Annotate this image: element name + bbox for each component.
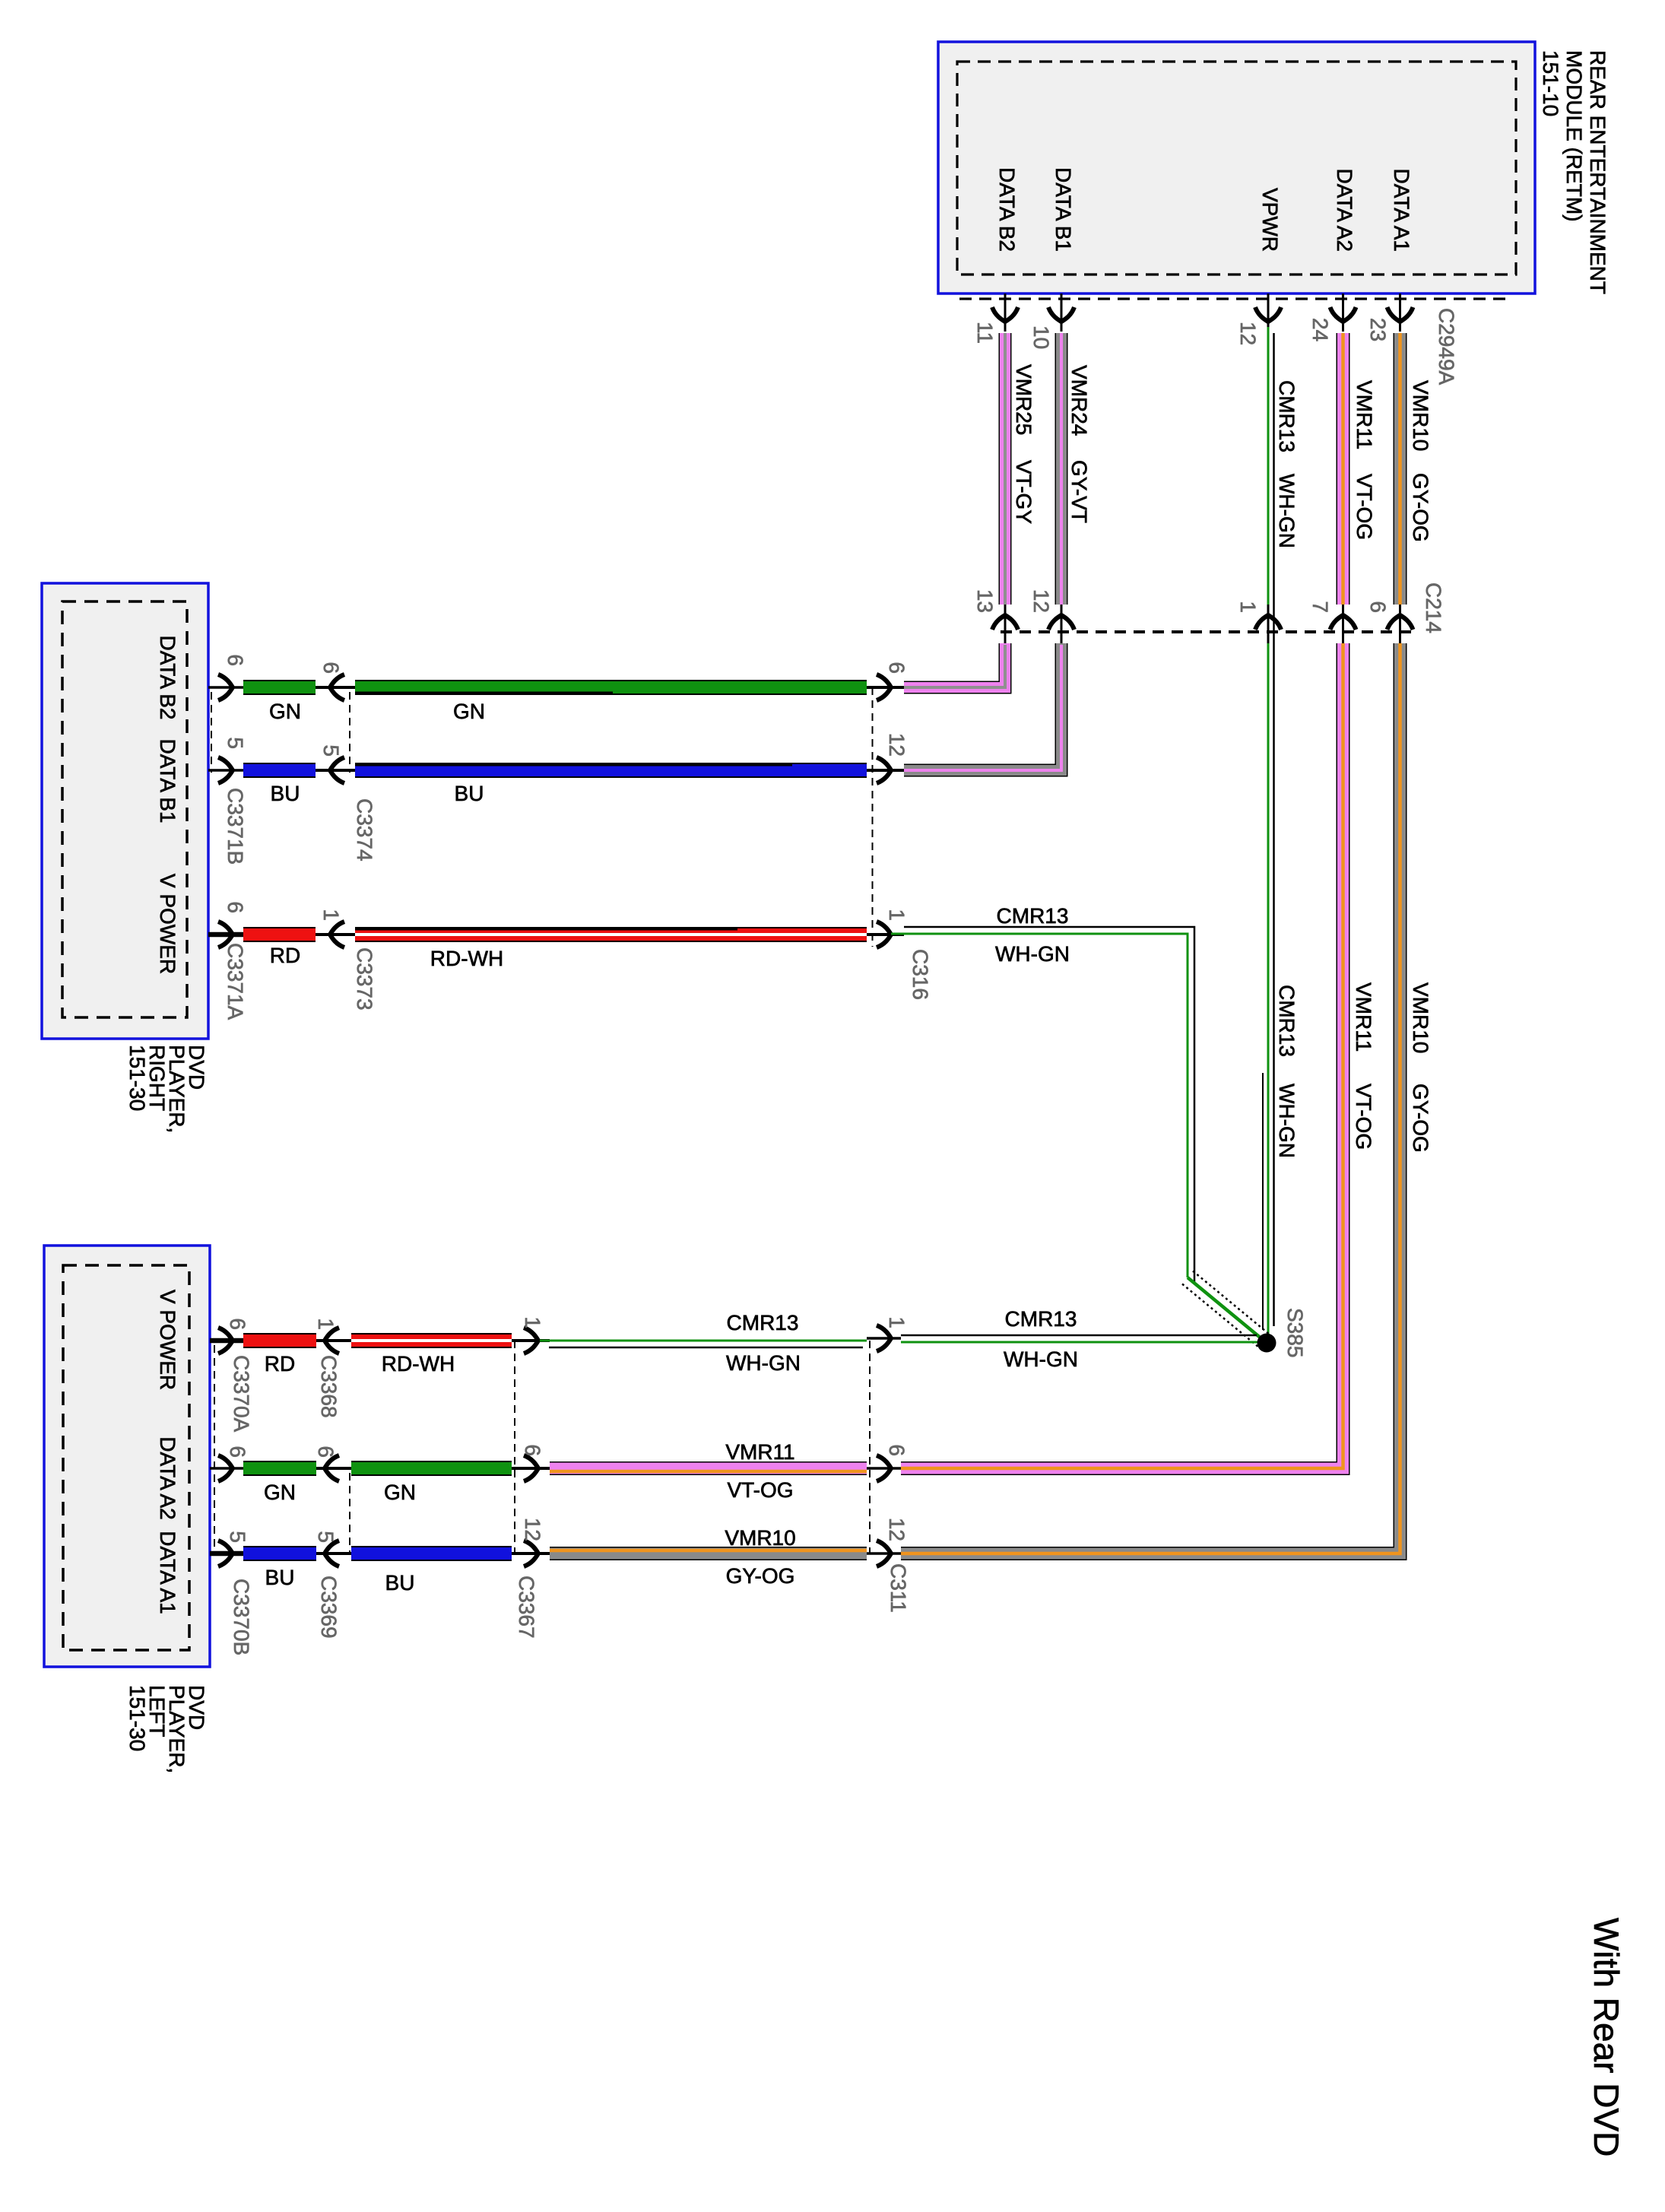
svg-text:DATA B2: DATA B2 bbox=[156, 635, 179, 719]
label RD short bbox=[270, 944, 300, 967]
label VMR10 GY-OG (lower vertical) bbox=[1409, 982, 1432, 1153]
pin label DATA B1 bbox=[1051, 167, 1075, 252]
svg-text:V POWER: V POWER bbox=[156, 1290, 179, 1390]
wire RD short (C3370A to C3368) bbox=[243, 1333, 316, 1348]
svg-text:6: 6 bbox=[314, 1446, 338, 1458]
connector C214 label bbox=[1422, 582, 1445, 633]
pin number 5 (C3374/C3373) bbox=[319, 744, 343, 757]
svg-text:C316: C316 bbox=[909, 949, 932, 1000]
svg-text:GY-OG: GY-OG bbox=[1409, 1084, 1432, 1153]
svg-text:1: 1 bbox=[885, 1316, 909, 1328]
svg-text:6: 6 bbox=[224, 901, 247, 913]
svg-text:6: 6 bbox=[1366, 601, 1390, 613]
svg-text:1: 1 bbox=[521, 1316, 544, 1328]
in-line arrow into C3368/C3369 row y=1763 bbox=[316, 1328, 351, 1354]
label RD-WH long bbox=[430, 947, 503, 970]
svg-text:RD-WH: RD-WH bbox=[430, 947, 503, 970]
svg-text:WH-GN: WH-GN bbox=[726, 1351, 801, 1375]
svg-text:GN: GN bbox=[264, 1480, 296, 1504]
connector C3370B label bbox=[230, 1579, 253, 1655]
svg-text:C3371A: C3371A bbox=[224, 943, 247, 1020]
svg-text:VMR11: VMR11 bbox=[725, 1440, 794, 1464]
label RD-WH left bbox=[382, 1352, 455, 1376]
svg-text:6: 6 bbox=[885, 662, 909, 674]
pin label DATA A2 (left DVD) bbox=[156, 1436, 179, 1519]
svg-text:151-30: 151-30 bbox=[125, 1045, 149, 1111]
wire GN long (C3374 to C316 pin 6) bbox=[355, 687, 867, 693]
connector C214 dashed line bbox=[1001, 630, 1413, 633]
pin number 12 (C2949A) bbox=[1236, 322, 1260, 345]
svg-text:GN: GN bbox=[453, 700, 485, 723]
connector C3374 dashed bbox=[349, 692, 350, 773]
svg-text:WH-GN: WH-GN bbox=[1275, 474, 1299, 548]
label BU short bbox=[271, 782, 300, 805]
svg-text:C3369: C3369 bbox=[317, 1576, 341, 1639]
svg-text:REAR ENTERTAINMENT: REAR ENTERTAINMENT bbox=[1586, 50, 1609, 294]
svg-text:12: 12 bbox=[1236, 322, 1260, 345]
wire VMR10 GY-OG (C3367 to C311) bbox=[550, 1550, 867, 1553]
svg-text:151-10: 151-10 bbox=[1539, 50, 1562, 116]
pin stub right DVD row y=904 bbox=[208, 674, 243, 700]
pin stub left DVD row y=2043 bbox=[210, 1541, 243, 1566]
in-line arrow at C311 row y=2043 bbox=[867, 1541, 901, 1566]
wire BU mid (C3369 to C3367) bbox=[351, 1546, 512, 1561]
svg-text:CMR13: CMR13 bbox=[1275, 380, 1299, 452]
pin number 1 (C316) bbox=[885, 909, 909, 921]
in-line arrow at C316 row y=1229 bbox=[867, 922, 904, 947]
in-line arrow into C3374/C3373 row y=904 bbox=[316, 674, 355, 700]
module REAR ENTERTAINMENT MODULE (RETM) 151-10 box bbox=[938, 42, 1535, 294]
wire VMR11 VT-OG long run (C214 pin 7 to DATA A2 row elbow) bbox=[901, 643, 1343, 1468]
svg-text:6: 6 bbox=[224, 654, 247, 666]
svg-text:11: 11 bbox=[973, 322, 997, 344]
svg-text:VMR10: VMR10 bbox=[1409, 982, 1432, 1053]
pin number 7 (C214 top) bbox=[1308, 601, 1332, 613]
svg-text:VT-OG: VT-OG bbox=[1352, 1084, 1375, 1150]
in-line arrow at C3367 row y=1763 bbox=[512, 1328, 550, 1354]
pin number 24 (C2949A) bbox=[1308, 318, 1332, 341]
pin number 1 (C3374/C3373) bbox=[319, 909, 343, 921]
connector C3367 label bbox=[515, 1576, 538, 1639]
label CMR13 WH-GN (first horizontal) bbox=[726, 1311, 801, 1375]
svg-text:6: 6 bbox=[319, 662, 343, 674]
label GN short left bbox=[264, 1480, 296, 1504]
connector C3368 label bbox=[317, 1355, 341, 1418]
pin stub DATA A1 at C2949A bbox=[1387, 294, 1413, 332]
label VMR11 VT-OG (lower vertical) bbox=[1352, 982, 1375, 1150]
pin label DATA A1 (left DVD) bbox=[156, 1531, 179, 1614]
svg-text:DATA A1: DATA A1 bbox=[156, 1531, 179, 1614]
label GN mid left bbox=[384, 1480, 416, 1504]
svg-text:RD: RD bbox=[270, 944, 300, 967]
label RD short left bbox=[265, 1352, 295, 1376]
svg-text:VMR24: VMR24 bbox=[1067, 365, 1091, 436]
label CMR13 WH-GN (second horizontal) bbox=[1004, 1307, 1078, 1371]
pin label V POWER (right DVD) bbox=[156, 874, 179, 974]
connector C2949A dashed line bbox=[959, 297, 1513, 300]
pin number 12 (C3367) bbox=[521, 1518, 544, 1541]
wire VT (VMR25 cont.) elbow to GN junction bbox=[904, 643, 1005, 687]
wire GN mid (C3369 to C3367) bbox=[351, 1461, 512, 1476]
svg-text:C214: C214 bbox=[1422, 582, 1445, 633]
svg-text:With Rear DVD: With Rear DVD bbox=[1587, 1918, 1626, 2156]
svg-text:C3370B: C3370B bbox=[230, 1579, 253, 1655]
pin stub left DVD row y=1931 bbox=[210, 1455, 243, 1481]
C214 up arrow (DATA A2) bbox=[1330, 605, 1356, 643]
svg-text:VPWR: VPWR bbox=[1258, 188, 1282, 252]
svg-text:RD: RD bbox=[265, 1352, 295, 1376]
pin stub DATA A2 at C2949A bbox=[1330, 294, 1356, 332]
pin stub right DVD row y=1013 bbox=[208, 757, 243, 783]
svg-text:BU: BU bbox=[455, 782, 484, 805]
pin stub DATA B2 at C2949A bbox=[992, 294, 1018, 332]
svg-text:6: 6 bbox=[226, 1446, 249, 1458]
label GN long bbox=[453, 700, 485, 723]
wire VMR11 VT-OG vertical+elbow (pin 24 / C214 pin 7 down to DATA A2 row) bbox=[1337, 333, 1350, 605]
pin stub DATA B1 at C2949A bbox=[1048, 294, 1074, 332]
wire RD short (C3371A to C3373) bbox=[243, 927, 316, 942]
svg-text:C311: C311 bbox=[886, 1563, 910, 1613]
wire VMR10 GY-OG long run (C214 pin 6 to DATA A1 row elbow) bbox=[901, 643, 1400, 1553]
svg-text:C3370A: C3370A bbox=[230, 1355, 253, 1433]
label VMR10 GY-OG (upper) bbox=[1409, 380, 1432, 542]
svg-text:CMR13: CMR13 bbox=[1005, 1307, 1077, 1331]
svg-text:CMR13: CMR13 bbox=[727, 1311, 799, 1334]
in-line arrow into C3374/C3373 row y=1013 bbox=[316, 757, 355, 783]
label RETM module name bbox=[1539, 50, 1609, 294]
connector C2949A label bbox=[1435, 308, 1458, 386]
svg-text:C3374: C3374 bbox=[353, 798, 376, 862]
svg-text:CMR13: CMR13 bbox=[1275, 985, 1299, 1057]
in-line arrow at C316 row y=1013 bbox=[867, 757, 904, 783]
in-line arrow into C3368/C3369 row y=1931 bbox=[316, 1455, 351, 1481]
svg-text:GY-VT: GY-VT bbox=[1067, 460, 1091, 523]
svg-text:S385: S385 bbox=[1283, 1308, 1307, 1357]
pin number 1 (C311) bbox=[885, 1316, 909, 1328]
svg-text:GY-OG: GY-OG bbox=[726, 1564, 795, 1588]
pin number 6 (C316) bbox=[885, 662, 909, 674]
svg-text:12: 12 bbox=[521, 1518, 544, 1541]
label VMR11 VT-OG horizontal bbox=[725, 1440, 794, 1502]
connector C316 dashed bbox=[872, 687, 874, 947]
svg-text:1: 1 bbox=[314, 1318, 338, 1330]
pin label DATA B2 bbox=[995, 167, 1019, 252]
pin number 6 (C3367) bbox=[521, 1444, 544, 1456]
wire CMR13 WH-GN vertical (VPWR pin 12 down to splice S385) bbox=[1263, 327, 1274, 1341]
svg-text:1: 1 bbox=[885, 909, 909, 921]
svg-text:CMR13: CMR13 bbox=[997, 904, 1069, 928]
in-line arrow at C3367 row y=1931 bbox=[512, 1455, 550, 1481]
connector C3369 dashed bbox=[349, 1473, 350, 1553]
pin number 6 (left DVD box) bbox=[226, 1446, 249, 1458]
connector C3373 label bbox=[353, 947, 376, 1011]
svg-text:WH-GN: WH-GN bbox=[995, 942, 1070, 966]
pin number 6 (C3368/C3369) bbox=[314, 1446, 338, 1458]
label DVD PLAYER RIGHT bbox=[125, 1045, 208, 1133]
label VMR10 GY-OG horizontal bbox=[725, 1526, 795, 1588]
svg-text:23: 23 bbox=[1366, 318, 1390, 341]
pin number 12 (C214 top) bbox=[1029, 589, 1053, 613]
pin number 12 (C316) bbox=[885, 733, 909, 757]
pin number 6 (C214 top) bbox=[1366, 601, 1390, 613]
pin label DATA A1 bbox=[1390, 169, 1413, 252]
label CMR13 WH-GN (lower vertical, VPWR wire) bbox=[1275, 985, 1299, 1158]
title With Rear DVD bbox=[1587, 1918, 1626, 2156]
svg-text:RD-WH: RD-WH bbox=[382, 1352, 455, 1376]
connector C3371B dashed bbox=[211, 692, 212, 773]
svg-text:GY-OG: GY-OG bbox=[1409, 473, 1432, 542]
svg-text:DATA B1: DATA B1 bbox=[156, 738, 179, 823]
connector C3370 dashed bbox=[214, 1345, 215, 1553]
pin number 6 (C3374/C3373) bbox=[319, 662, 343, 674]
pin stub VPWR at C2949A bbox=[1255, 294, 1281, 332]
svg-text:10: 10 bbox=[1029, 325, 1053, 349]
pin number 6 (right DVD box) bbox=[224, 654, 247, 666]
wire GY (VMR24 cont.) elbow to BU junction bbox=[904, 643, 1061, 770]
wire VMR24 GY-VT vertical (pin 10 to C214 pin 12) bbox=[1055, 333, 1068, 605]
svg-text:5: 5 bbox=[226, 1531, 249, 1543]
svg-text:VMR11: VMR11 bbox=[1352, 982, 1375, 1052]
svg-text:C3373: C3373 bbox=[353, 947, 376, 1011]
in-line arrow at C311 row y=1763 bbox=[867, 1325, 901, 1351]
pin number 1 (C214 top) bbox=[1236, 601, 1260, 613]
pin stub right DVD row y=1229 bbox=[208, 922, 243, 947]
module DVD PLAYER RIGHT 151-30 box bbox=[42, 583, 208, 1039]
svg-text:MODULE (RETM): MODULE (RETM) bbox=[1562, 50, 1586, 222]
svg-text:VMR11: VMR11 bbox=[1353, 380, 1376, 449]
pin number 10 (C2949A) bbox=[1029, 325, 1053, 349]
svg-text:V POWER: V POWER bbox=[156, 874, 179, 974]
wire CMR13 WH-GN from C316 pin 1 to splice S385 bbox=[891, 927, 1272, 1350]
label S385 bbox=[1283, 1308, 1307, 1357]
wire CMR13 WH-GN (C3367 to C311) bbox=[540, 1341, 867, 1347]
pin number 5 (C3368/C3369) bbox=[314, 1531, 338, 1543]
C214 up arrow (VPWR) bbox=[1255, 605, 1281, 643]
wire VMR25 VT-GY vertical (pin 11 to C214 pin 13) bbox=[999, 333, 1012, 605]
svg-text:5: 5 bbox=[319, 744, 343, 757]
svg-text:151-30: 151-30 bbox=[125, 1685, 149, 1751]
pin number 23 (C2949A) bbox=[1366, 318, 1390, 341]
in-line arrow at C316 row y=904 bbox=[867, 674, 904, 700]
label VMR25 VT-GY bbox=[1012, 364, 1035, 524]
connector C316 label bbox=[909, 949, 932, 1000]
svg-text:1: 1 bbox=[319, 909, 343, 921]
label BU mid left bbox=[385, 1571, 415, 1595]
C214 up arrow (DATA B1) bbox=[1048, 605, 1074, 643]
svg-text:BU: BU bbox=[271, 782, 300, 805]
pin number 5 (left DVD box) bbox=[226, 1531, 249, 1543]
svg-text:C3371B: C3371B bbox=[224, 788, 247, 865]
svg-text:DATA A1: DATA A1 bbox=[1390, 169, 1413, 252]
pin number 1 (C3368/C3369) bbox=[314, 1318, 338, 1330]
splice S385 bbox=[1257, 1334, 1276, 1353]
C214 up arrow (DATA A1) bbox=[1387, 605, 1413, 643]
svg-text:BU: BU bbox=[265, 1566, 295, 1589]
svg-text:6: 6 bbox=[885, 1444, 909, 1456]
svg-text:VT-OG: VT-OG bbox=[1353, 474, 1376, 540]
svg-text:GN: GN bbox=[384, 1480, 416, 1504]
svg-text:WH-GN: WH-GN bbox=[1004, 1347, 1078, 1371]
pin number 5 (right DVD box) bbox=[224, 737, 247, 749]
pin number 13 (C214 top) bbox=[973, 589, 997, 613]
pin label VPWR bbox=[1258, 188, 1282, 252]
svg-text:GN: GN bbox=[269, 700, 301, 723]
svg-text:DATA B1: DATA B1 bbox=[1051, 167, 1075, 252]
svg-text:7: 7 bbox=[1308, 601, 1332, 613]
connector C311 dashed bbox=[869, 1341, 871, 1553]
svg-text:1: 1 bbox=[1236, 601, 1260, 613]
label GN short bbox=[269, 700, 301, 723]
pin label DATA B1 (right DVD) bbox=[156, 738, 179, 823]
in-line arrow into C3368/C3369 row y=2043 bbox=[316, 1541, 351, 1566]
svg-text:VMR10: VMR10 bbox=[725, 1526, 795, 1550]
connector C3369 label bbox=[317, 1576, 341, 1639]
wire VMR11 VT-OG (C3367 to C311) bbox=[550, 1468, 867, 1471]
pin number 11 (C2949A) bbox=[973, 322, 997, 344]
wire CMR13 WH-GN (C311 to splice S385) bbox=[901, 1335, 1261, 1342]
connector C3371B label bbox=[224, 788, 247, 865]
svg-text:C3367: C3367 bbox=[515, 1576, 538, 1639]
svg-text:DATA A2: DATA A2 bbox=[1333, 169, 1356, 252]
svg-text:VMR25: VMR25 bbox=[1012, 364, 1035, 435]
svg-text:VT-OG: VT-OG bbox=[727, 1478, 793, 1502]
pin number 6 (left DVD box) bbox=[226, 1318, 249, 1330]
svg-text:VT-GY: VT-GY bbox=[1012, 460, 1035, 524]
svg-text:24: 24 bbox=[1308, 318, 1332, 341]
label CMR13 WH-GN (C316 horizontal) bbox=[995, 904, 1070, 966]
wire VMR10 GY-OG vertical (pin 23 / C214 pin 6) bbox=[1394, 333, 1407, 605]
label DVD PLAYER LEFT bbox=[125, 1685, 208, 1773]
wire GN short (C3371B to C3374) bbox=[243, 680, 316, 695]
label BU long bbox=[455, 782, 484, 805]
pin number 6 (C311) bbox=[885, 1444, 909, 1456]
wire GN short (C3370B to C3369) bbox=[243, 1461, 316, 1476]
pin label DATA A2 bbox=[1333, 169, 1356, 252]
pin stub left DVD row y=1763 bbox=[210, 1328, 243, 1354]
pin number 12 (C311) bbox=[885, 1518, 909, 1541]
wire BU short (C3370B to C3369) bbox=[243, 1546, 316, 1561]
pin number 6 (right DVD box) bbox=[224, 901, 247, 913]
wire BU long (C3374 to C316 pin 12) bbox=[355, 765, 867, 771]
C214 up arrow (DATA B2) bbox=[992, 605, 1018, 643]
svg-text:12: 12 bbox=[885, 1518, 909, 1541]
wire RD-WH (C3368 to C3367) bbox=[351, 1333, 512, 1348]
svg-text:5: 5 bbox=[224, 737, 247, 749]
svg-text:WH-GN: WH-GN bbox=[1275, 1084, 1299, 1158]
wire RD-WH long (C3373 to C316 pin 1) bbox=[355, 929, 867, 935]
svg-text:12: 12 bbox=[1029, 589, 1053, 613]
svg-text:DATA A2: DATA A2 bbox=[156, 1436, 179, 1519]
in-line arrow at C3367 row y=2043 bbox=[512, 1541, 550, 1566]
pin label DATA B2 (right DVD) bbox=[156, 635, 179, 719]
connector C311 label bbox=[886, 1563, 910, 1613]
svg-text:BU: BU bbox=[385, 1571, 415, 1595]
connector C3370A label bbox=[230, 1355, 253, 1433]
label VMR24 GY-VT bbox=[1067, 365, 1091, 523]
svg-text:5: 5 bbox=[314, 1531, 338, 1543]
label BU short left bbox=[265, 1566, 295, 1589]
pin number 1 (C3367) bbox=[521, 1316, 544, 1328]
svg-text:6: 6 bbox=[521, 1444, 544, 1456]
svg-text:C2949A: C2949A bbox=[1435, 308, 1458, 386]
wire BU short (C3371B to C3374) bbox=[243, 763, 316, 778]
pin label V POWER (left DVD) bbox=[156, 1290, 179, 1390]
svg-text:DATA B2: DATA B2 bbox=[995, 167, 1019, 252]
connector C3371A label bbox=[224, 943, 247, 1020]
label VMR11 VT-OG (upper) bbox=[1353, 380, 1376, 540]
connector C3367 dashed bbox=[514, 1341, 515, 1553]
svg-text:12: 12 bbox=[885, 733, 909, 757]
svg-text:VMR10: VMR10 bbox=[1409, 380, 1432, 451]
svg-text:C3368: C3368 bbox=[317, 1355, 341, 1418]
svg-text:6: 6 bbox=[226, 1318, 249, 1330]
svg-text:13: 13 bbox=[973, 589, 997, 613]
in-line arrow at C311 row y=1931 bbox=[867, 1455, 901, 1481]
connector C3374 label bbox=[353, 798, 376, 862]
label CMR13 WH-GN (upper) bbox=[1275, 380, 1299, 548]
in-line arrow into C3374/C3373 row y=1229 bbox=[316, 922, 355, 947]
module DVD PLAYER LEFT 151-30 box bbox=[44, 1246, 210, 1667]
